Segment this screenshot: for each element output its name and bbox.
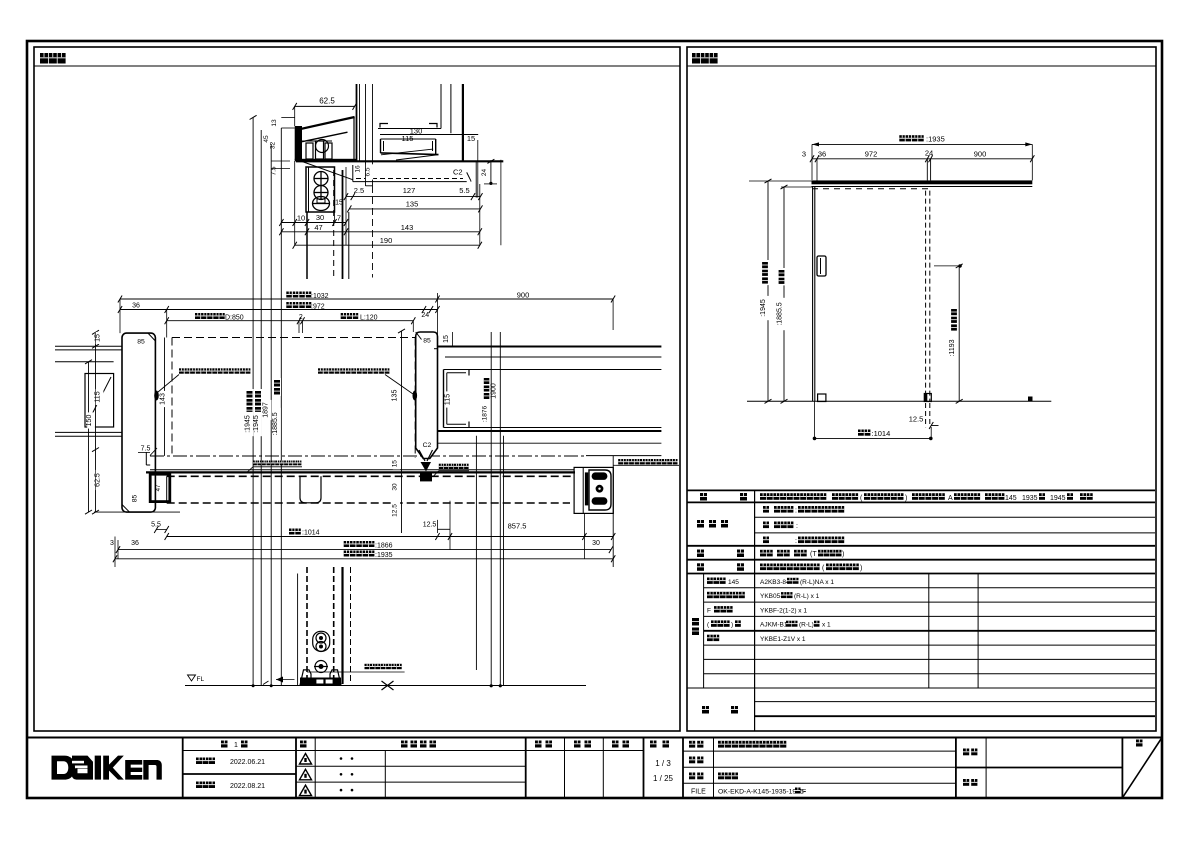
base trapezoids [300,670,311,685]
front: dim tobiradaka 1885.5 [783,187,785,401]
svg-text:(R-L): (R-L) [799,622,814,629]
sub-table row line 4 [704,630,1155,632]
diagonal brace under cap [303,162,354,180]
svg-text:F: F [802,789,806,796]
front: dim tobirahaba 1014 [814,401,816,439]
svg-text:30: 30 [592,540,600,547]
dim 24 (board thickness) [490,160,492,184]
svg-text::1014: :1014 [302,530,320,537]
break X mark [382,681,394,690]
svg-text::: : [795,538,797,545]
svg-text:6.5: 6.5 [365,167,372,176]
svg-text:): ) [842,551,844,558]
wall stud lines top left [356,84,358,161]
wall lines left (plan) [55,345,122,347]
svg-text::1866: :1866 [375,542,393,549]
frame-to-box step [145,452,147,465]
svg-text:24: 24 [481,169,488,177]
front: handle [817,256,826,276]
svg-text::: : [795,507,797,514]
sakusei header [612,741,619,748]
svg-text:857.5: 857.5 [508,522,527,531]
svg-text:900: 900 [517,291,530,300]
lower-left rail end box [150,474,170,501]
svg-text:15: 15 [443,335,450,343]
svg-text:145: 145 [1005,495,1017,502]
svg-text:15: 15 [95,334,102,342]
door section stubs below top detail [306,212,308,279]
left fixed frame (plan) [122,333,155,512]
svg-text:(T: (T [810,551,817,558]
title block top border [27,737,1162,739]
svg-text:2022.06.21: 2022.06.21 [230,759,265,766]
wakuuchihaba1 1866 [344,541,350,547]
rotated 15 / 115 / 62.5 / 150 labels [96,332,104,344]
rotated label tobiradaka 1885.5 [273,378,281,396]
svg-text:x 1: x 1 [822,622,831,629]
dai-1-han header [221,741,228,748]
svg-text:62.5: 62.5 [95,473,102,487]
long vertical dim lines (height dims) [252,117,254,685]
rail band upper line [150,469,574,471]
floor end dots [490,684,493,687]
svg-text:YKB05-: YKB05- [760,593,782,600]
svg-text::: : [796,523,798,530]
dim 62.5 top [295,105,355,107]
revision triangle 1 [300,754,312,765]
rotated label wakugaidaka 1945 [254,389,262,415]
svg-text:7: 7 [337,214,341,223]
right panel frame (front view) [687,47,1156,731]
handle recess (plan) [300,476,321,503]
row hikite [707,635,713,641]
meishou label [689,741,695,748]
title rows [183,750,644,752]
rotated 15/30/12.5 near rail [393,458,400,470]
svg-text:115: 115 [445,394,452,405]
front: door bottom marks [818,394,826,402]
svg-text:FILE: FILE [691,789,706,796]
label shiage [697,520,704,528]
shiage rows [763,506,769,513]
svg-text::1014: :1014 [872,429,891,438]
svg-text:85: 85 [132,495,139,503]
svg-text:): ) [905,495,907,502]
extension lines top detail [294,161,296,245]
right panel title line [687,65,1156,67]
plan dim line A 1032 + 900 [286,292,292,298]
hinban label [689,757,695,764]
end stopper [574,467,613,513]
end stopper label [618,459,623,464]
svg-text:1 / 3: 1 / 3 [655,759,671,768]
front: dim wakugaidaka 1945 [767,181,769,401]
svg-text::1935: :1935 [926,135,945,144]
rotated uchinoridaka 1876 / 1900 [483,376,491,401]
door bottom assembly verticals [297,574,299,686]
left small rotated dims 13/45/32/7.5 [273,117,280,129]
svg-text:F: F [707,607,711,614]
DAIKEN logo [52,756,162,780]
cap bottom plate [295,159,357,162]
svg-text:2022.08.21: 2022.08.21 [230,783,265,790]
svg-text:): ) [731,622,733,629]
62.5 bottom line [94,511,180,513]
svg-text:5.5: 5.5 [459,186,469,195]
svg-text:143: 143 [401,223,414,232]
rotated 115 right [446,391,454,407]
svg-text:1 / 25: 1 / 25 [653,774,674,783]
cap spacer blocks [306,143,313,159]
label totte [697,550,704,558]
svg-text:12.5: 12.5 [423,522,437,529]
spec table verticals [754,490,756,731]
svg-text:15: 15 [467,134,475,143]
bikou label [702,706,709,714]
right wall bracket channel [444,369,662,371]
guide rail stop (plan) [419,450,425,461]
svg-text:127: 127 [403,186,416,195]
base black band [300,678,341,686]
value youshiki row [760,493,766,500]
svg-text:36: 36 [131,540,139,547]
flat rail label [365,664,370,669]
svg-text::1193: :1193 [949,339,956,356]
svg-text::1945: :1945 [253,415,260,433]
svg-text::1876: :1876 [482,405,489,422]
svg-text:47: 47 [156,484,162,491]
front: dim wakugaihaba 1935 [899,135,905,141]
row rail set [707,592,713,598]
front: door left frame edge [812,187,814,402]
svg-text:FL: FL [197,676,205,683]
floor line [185,685,586,687]
svg-text:47: 47 [314,223,322,232]
front: top rail thick bar [812,180,1033,184]
svg-text:972: 972 [865,150,878,159]
remarks rows [755,701,1155,703]
svg-text:1897: 1897 [263,402,270,418]
left dim stubs [281,127,294,129]
kakunin header [574,741,581,748]
FL mark [188,675,196,681]
wall stud lines top right [440,84,442,129]
screw 1 [314,172,328,186]
svg-text:(R-L) x 1: (R-L) x 1 [794,593,820,600]
page diagonal [1122,738,1162,798]
svg-text:3: 3 [802,150,806,159]
cap bolt circle [316,140,329,153]
svg-text:30: 30 [316,213,324,222]
lower wheel [315,661,327,673]
soffit board [296,160,503,162]
bolt 3 [313,197,330,211]
svg-text:C2: C2 [423,442,432,449]
kumiin label [963,779,969,786]
svg-text:135: 135 [406,200,419,209]
screw-cap leader text 1 [179,368,184,373]
rotated label wakuuchidaka 1945 [246,389,254,415]
page label [1136,740,1143,747]
svg-text:150: 150 [86,415,93,427]
svg-text:12.5: 12.5 [909,415,924,424]
left panel title line [34,65,680,67]
rotated 16 / 6.5 board labels [356,163,363,175]
bottom dim line (1014 / 857.5) [167,536,614,538]
svg-text:13: 13 [271,119,278,127]
necessary-dim small text with underline [253,461,257,466]
svg-text::1945: :1945 [760,299,767,317]
extension verticals plan dims [119,299,121,333]
spec table outer [687,489,1155,491]
svg-text:24: 24 [421,312,429,319]
svg-text:36: 36 [818,150,826,159]
tobirahaba 1014 text [289,529,295,535]
svg-text:C2: C2 [453,168,463,177]
screw cap marker middle [413,391,418,401]
left wall stud with brace [85,374,114,428]
label youshiki [700,493,707,501]
svg-text::1935: :1935 [375,552,393,559]
sub-table row line 7 [704,673,1155,675]
small arrow near floor [276,679,295,681]
title block verticals [182,738,184,798]
svg-text:AJKM-B1: AJKM-B1 [760,622,788,629]
front: door right edge dashed [925,191,927,402]
sub-table row line 3 [704,615,1155,617]
svg-text::1945: :1945 [245,415,252,433]
svg-text:A: A [948,495,953,502]
svg-text:190: 190 [380,236,393,245]
svg-text:62.5: 62.5 [319,97,335,106]
revision triangle 2 [300,769,312,780]
svg-text:143: 143 [160,393,167,405]
guide-rail label [439,464,444,469]
svg-text:30: 30 [391,483,398,491]
hinban vertical label [691,616,700,637]
hanging rail channel [380,139,382,153]
svg-text:7.5: 7.5 [141,446,151,453]
svg-text:(R-L)NA x 1: (R-L)NA x 1 [800,579,834,586]
shounin header [535,741,542,748]
15 dim right of middle frame [451,332,453,346]
wall lines right (plan) [438,346,662,348]
hanger bracket box with screws [306,167,335,212]
svg-text:45: 45 [263,135,270,143]
revision dots [340,757,343,760]
svg-text::1885.5: :1885.5 [777,302,784,325]
kaitei rireki header [401,741,408,748]
svg-text:85: 85 [137,339,145,346]
svg-text:36: 36 [132,303,140,310]
sub-table row line 1 [704,587,1155,589]
zumei value sanmenzu [718,773,724,780]
svg-text:OK-EKD-A-K145-1935-1945-: OK-EKD-A-K145-1935-1945- [718,789,806,796]
front: dim hikitedaka 1193 [958,266,960,401]
middle frame (plan) [416,332,438,459]
front: floor line [747,400,1051,402]
rail mount clips [380,124,388,128]
sub-table row line 6 [704,658,1155,660]
svg-text:5.5: 5.5 [151,522,161,529]
screw 2 [314,186,328,200]
door travel dash-dot line [150,455,586,457]
svg-text:900: 900 [974,150,987,159]
meishou value [718,741,724,748]
kaitei-bi row [196,782,202,789]
svg-text:1: 1 [234,742,238,749]
kenmei label [963,749,969,756]
svg-text:10: 10 [297,214,305,223]
right long verticals [490,332,492,686]
han col header [300,741,307,748]
svg-text:3: 3 [110,540,114,547]
screw cap marker left [154,391,159,401]
plan dim line C 850/2/120 [195,313,200,319]
board inner dashed line [356,178,463,180]
plan dim line B 972 [286,302,292,308]
wakugaihaba1 1935 [344,551,350,557]
shukushaku header [650,741,657,748]
revision triangle 3 [300,785,312,796]
svg-text:15: 15 [391,460,398,468]
svg-text:YKBF-2(1-2) x 1: YKBF-2(1-2) x 1 [760,607,807,614]
svg-text::1885.5: :1885.5 [272,412,279,435]
row koteiwaku145 [707,578,713,584]
sub-table row line 2 [704,601,1155,603]
left panel frame (section view) [34,47,680,731]
svg-text:16: 16 [355,165,362,173]
wheel capsule [313,631,330,651]
svg-text:12.5: 12.5 [392,504,399,517]
svg-text:): ) [860,565,862,572]
screw-cap leader text 2 [318,368,323,373]
door panel dashed (plan) [172,337,415,339]
label shomenzu [692,53,700,64]
svg-text:115: 115 [95,391,102,402]
left vertical dim lines [95,332,97,512]
label danmenzu [40,53,48,64]
svg-text:85: 85 [423,338,431,345]
svg-text:1935: 1935 [1022,495,1038,502]
rotated label 1897 [264,400,272,420]
door bottom dashed band [167,475,574,477]
vertical dim 143 (plan) [164,338,166,456]
svg-text:YKBE1-Z1V x 1: YKBE1-Z1V x 1 [760,636,806,643]
svg-text:A2KB3-84: A2KB3-84 [760,579,790,586]
svg-text:32: 32 [270,142,277,150]
zumei label [689,773,695,780]
cap trapezoid [295,126,302,160]
dim 135 vertical [401,331,403,533]
svg-text:145: 145 [728,579,739,586]
svg-text:135: 135 [392,390,399,402]
svg-text:1945: 1945 [1050,495,1066,502]
sub-table row line 5 [704,644,1155,646]
svg-text:2.5: 2.5 [354,186,364,195]
seitei-bi row [196,758,202,765]
rail line thick [146,471,575,473]
label kanagu [697,563,704,571]
